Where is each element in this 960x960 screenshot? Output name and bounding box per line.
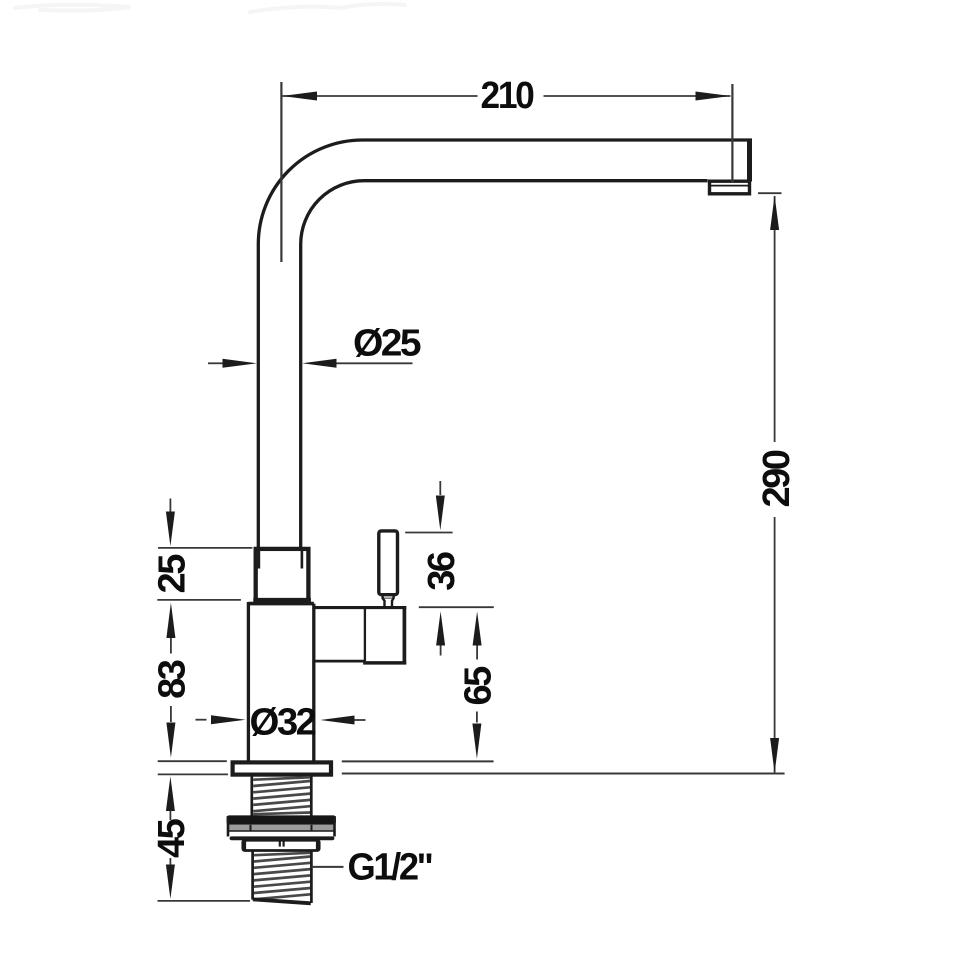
svg-text:Ø25: Ø25: [353, 323, 421, 365]
svg-text:210: 210: [481, 75, 534, 117]
svg-text:290: 290: [756, 450, 798, 507]
svg-text:G1/2": G1/2": [348, 847, 432, 889]
svg-text:45: 45: [151, 818, 193, 858]
svg-text:Ø32: Ø32: [250, 701, 316, 743]
svg-text:65: 65: [458, 666, 500, 706]
svg-text:25: 25: [151, 554, 193, 594]
svg-text:36: 36: [421, 552, 463, 591]
svg-text:83: 83: [151, 660, 193, 699]
